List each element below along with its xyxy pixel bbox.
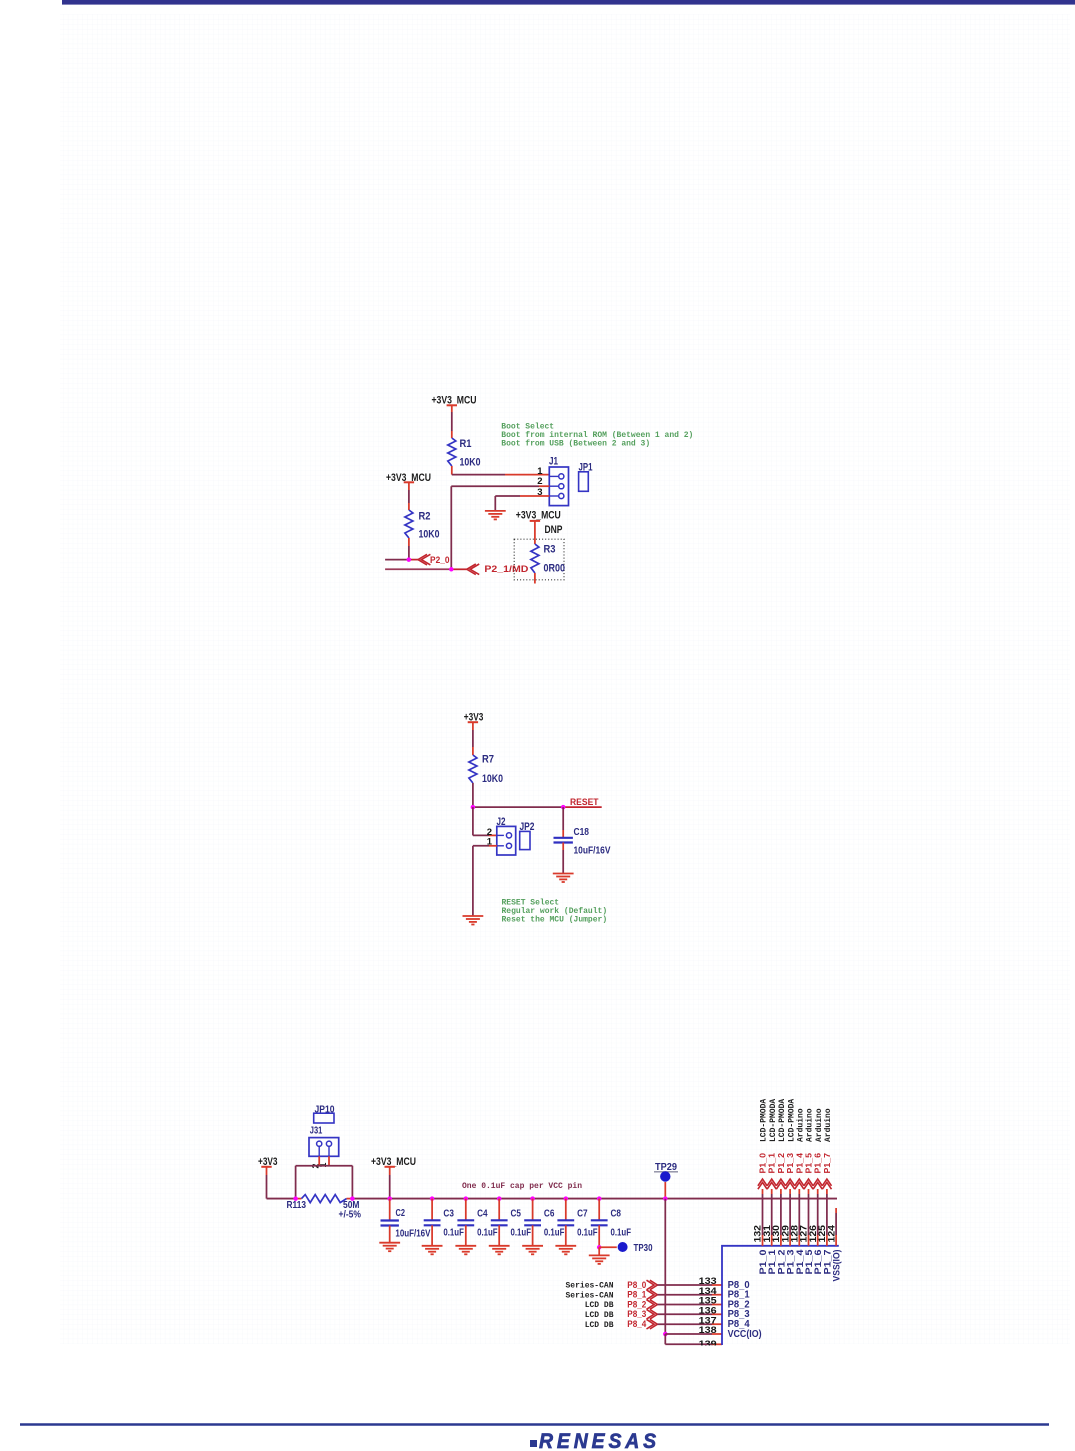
- power symbol +3V3_MCU (R2 top): [386, 472, 431, 484]
- wire RESET horizontal: [473, 806, 602, 808]
- power symbol +3V3_MCU (bus): [371, 1156, 416, 1168]
- wire +3V3_MCU down to bus: [389, 1167, 391, 1199]
- svg-text:RENESAS: RENESAS: [539, 1430, 660, 1451]
- wire P1_7 to MCU: [826, 1189, 828, 1246]
- svg-text:Arduino: Arduino: [824, 1108, 833, 1142]
- testpoint TP29: [654, 1162, 678, 1182]
- junction R113 left: [293, 1196, 298, 1201]
- svg-text:C18: C18: [574, 827, 590, 838]
- svg-text:P2_1/MD: P2_1/MD: [484, 564, 528, 574]
- ground (C7): [555, 1246, 576, 1255]
- junction P2_0: [407, 557, 412, 562]
- svg-text:LCD DB: LCD DB: [585, 1311, 614, 1320]
- svg-text:R3: R3: [544, 544, 556, 556]
- wire junction to VCC(IO) pin 138: [665, 1333, 722, 1335]
- off-page connector P1_5: [804, 1153, 814, 1189]
- wire RESET to C18: [562, 807, 564, 838]
- resistor R2: [405, 510, 440, 541]
- capacitor C4: [457, 1199, 497, 1246]
- svg-text:Arduino: Arduino: [815, 1108, 824, 1142]
- svg-text:LCD-PMODA: LCD-PMODA: [787, 1099, 796, 1142]
- wire +3V3_MCU to R3: [534, 521, 536, 544]
- note One 0.1uF cap per VCC pin: [462, 1182, 582, 1191]
- MCU pin number 127: [799, 1225, 809, 1243]
- off-page connector P8_2: [585, 1299, 658, 1310]
- svg-text:10K0: 10K0: [419, 529, 440, 541]
- svg-text:One 0.1uF cap per VCC pin: One 0.1uF cap per VCC pin: [462, 1182, 582, 1191]
- svg-text:RESET: RESET: [570, 797, 599, 807]
- wire J31 pin 2 stub: [318, 1156, 320, 1165]
- svg-text:Reset the MCU (Jumper): Reset the MCU (Jumper): [502, 916, 608, 925]
- J1 pin number 3: [537, 487, 542, 498]
- connector J31: [309, 1125, 339, 1156]
- MCU pin number 125: [817, 1225, 827, 1243]
- svg-text:0.1uF: 0.1uF: [477, 1228, 498, 1239]
- wire +3V3 down to bus: [266, 1167, 268, 1199]
- svg-text:VCC(IO): VCC(IO): [728, 1329, 762, 1340]
- wire C8 to TP30: [599, 1246, 617, 1248]
- off-page connector P8_4: [585, 1319, 658, 1330]
- svg-text:P2_0: P2_0: [430, 555, 450, 565]
- MCU U1 body edge: [722, 1246, 839, 1345]
- svg-text:Boot from USB (Between 2 and 3: Boot from USB (Between 2 and 3): [501, 440, 650, 449]
- svg-text:10K0: 10K0: [482, 773, 503, 785]
- rotated label Arduino (P1_5): [806, 1108, 815, 1142]
- MCU pin number 128: [790, 1225, 800, 1243]
- svg-text:138: 138: [699, 1325, 717, 1336]
- connector J1: [549, 456, 569, 506]
- wire P2_0 horizontal: [385, 559, 418, 561]
- MCU pin name P8_1: [728, 1290, 750, 1301]
- svg-text:Series-CAN: Series-CAN: [565, 1291, 613, 1300]
- svg-text:P8_1: P8_1: [627, 1290, 646, 1300]
- wire P8_1 to MCU: [658, 1294, 723, 1296]
- svg-text:0.1uF: 0.1uF: [511, 1228, 532, 1239]
- wire P8_2 to MCU: [658, 1304, 723, 1306]
- wire J31 pin 1 stub: [328, 1156, 330, 1165]
- junction RESET at C18: [561, 805, 566, 810]
- capacitor C8: [591, 1199, 631, 1248]
- MCU pin name P8_2: [728, 1299, 750, 1310]
- junction C6: [530, 1196, 535, 1201]
- resistor R113: [287, 1195, 362, 1221]
- MCU pin number 132: [753, 1225, 763, 1243]
- svg-text:Arduino: Arduino: [806, 1108, 815, 1142]
- ground (C5): [489, 1246, 510, 1255]
- svg-text:+/-5%: +/-5%: [339, 1209, 362, 1220]
- testpoint TP30: [618, 1242, 653, 1254]
- svg-text:R7: R7: [482, 754, 494, 766]
- off-page connector P8_1: [565, 1290, 657, 1301]
- wire R3 bottom: [534, 573, 536, 584]
- off-page connector P1_7: [822, 1153, 832, 1189]
- MCU pin name P1_4: [795, 1249, 806, 1275]
- off-page connector P1_0: [758, 1153, 768, 1189]
- capacitor C5: [491, 1199, 531, 1246]
- svg-text:Series-CAN: Series-CAN: [565, 1282, 613, 1291]
- svg-text:RESET Select: RESET Select: [502, 899, 560, 908]
- wire J1 pin 2 to P2_1/MD: [451, 486, 549, 569]
- power symbol +3V3_MCU (R1 top): [432, 395, 477, 407]
- off-page connector P1_4: [794, 1153, 804, 1189]
- svg-text:10uF/16V: 10uF/16V: [574, 846, 611, 857]
- svg-text:VSS(IO): VSS(IO): [832, 1250, 843, 1282]
- wire R7 to RESET node: [472, 783, 474, 807]
- MCU pin name VSS(IO): [832, 1250, 843, 1282]
- footer rule: [20, 1423, 1049, 1425]
- rotated label Arduino (P1_4): [797, 1108, 806, 1142]
- wire R2 to node P2_0: [408, 538, 410, 560]
- wire P1_5 to MCU: [808, 1189, 810, 1246]
- MCU pin name P1_3: [786, 1250, 797, 1275]
- junction TP29 bus: [663, 1196, 668, 1201]
- svg-text:10K0: 10K0: [460, 457, 481, 469]
- wire J31 bypass loop: [296, 1166, 353, 1199]
- wire TP29 vertical to VCC(IO): [664, 1199, 666, 1334]
- rotated label LCD-PMODA (P1_1): [769, 1099, 778, 1142]
- junction TP30: [597, 1245, 602, 1250]
- MCU pin number 136: [699, 1306, 717, 1317]
- wire VSS(IO) pin 124: [835, 1208, 837, 1246]
- wire R1 to J1 pin 1: [452, 466, 550, 475]
- wire J1 pin 3 to ground: [495, 496, 549, 511]
- svg-text:P8_0: P8_0: [627, 1280, 646, 1290]
- svg-text:C4: C4: [477, 1209, 488, 1220]
- off-page connector P1_3: [785, 1153, 795, 1189]
- off-page connector P1_2: [776, 1153, 786, 1189]
- junction C5: [497, 1196, 502, 1201]
- wire +3V3 to R7: [472, 722, 474, 755]
- MCU pin name P1_0: [758, 1250, 769, 1275]
- svg-text:P8_4: P8_4: [627, 1319, 647, 1329]
- MCU pin number 131: [762, 1225, 772, 1243]
- off-page connector P1_1: [767, 1153, 777, 1189]
- junction C3: [430, 1196, 435, 1201]
- junction C2: [387, 1196, 392, 1201]
- svg-text:R2: R2: [419, 511, 431, 523]
- jumper JP10: [314, 1104, 335, 1123]
- off-page connector P2_1/MD: [467, 564, 529, 575]
- off-page connector P8_3: [585, 1309, 658, 1320]
- ground (C4): [455, 1246, 476, 1255]
- MCU pin name P1_6: [813, 1250, 824, 1275]
- svg-text:P8_3: P8_3: [627, 1309, 646, 1319]
- junction C4: [464, 1196, 469, 1201]
- connector J2: [497, 816, 516, 855]
- svg-text:R1: R1: [460, 438, 472, 450]
- svg-text:P8_2: P8_2: [627, 1299, 646, 1309]
- ground (C18): [553, 874, 574, 883]
- ground (J2 pin 1): [463, 916, 484, 925]
- jumper JP1: [579, 462, 593, 492]
- svg-text:R113: R113: [287, 1200, 307, 1211]
- J1 pin number 2: [537, 476, 542, 487]
- junction P2_1/MD: [449, 567, 454, 572]
- off-page connector P1_6: [813, 1153, 823, 1189]
- wire P8_4 to MCU: [658, 1323, 723, 1325]
- DNP dotted box: [514, 539, 564, 580]
- capacitor C3: [424, 1199, 464, 1246]
- MCU pin name P8_4: [728, 1319, 750, 1330]
- wire P8_0 to MCU: [658, 1284, 723, 1286]
- capacitor C18: [554, 827, 611, 857]
- svg-text:J1: J1: [549, 456, 558, 468]
- off-page connector P8_0: [565, 1280, 657, 1291]
- wire C18 to ground: [562, 843, 564, 874]
- svg-text:Arduino: Arduino: [797, 1108, 806, 1142]
- resistor R1: [448, 438, 481, 469]
- svg-text:LCD-PMODA: LCD-PMODA: [769, 1099, 778, 1142]
- MCU pin number 135: [699, 1296, 718, 1307]
- rotated label Arduino (P1_6): [815, 1108, 824, 1142]
- J2 pin number 1: [487, 837, 493, 848]
- svg-text:0.1uF: 0.1uF: [443, 1228, 464, 1239]
- comment text Boot Select: [501, 423, 693, 449]
- comment text RESET Select: [502, 899, 608, 925]
- svg-text:J31: J31: [310, 1125, 323, 1136]
- svg-text:DNP: DNP: [545, 524, 563, 536]
- J2 pin number 2: [487, 827, 492, 838]
- rotated label LCD-PMODA (P1_3): [787, 1099, 796, 1142]
- svg-text:+3V3_MCU: +3V3_MCU: [516, 510, 561, 522]
- svg-text:LCD-PMODA: LCD-PMODA: [778, 1099, 787, 1142]
- MCU pin number 134: [699, 1286, 718, 1297]
- MCU pin name P8_0: [728, 1280, 750, 1291]
- J31 pin number 2: [310, 1164, 320, 1169]
- rotated label LCD-PMODA (P1_2): [778, 1099, 787, 1142]
- svg-text:0.1uF: 0.1uF: [611, 1228, 632, 1239]
- wire P1_1 to MCU: [771, 1189, 773, 1246]
- svg-text:124: 124: [826, 1225, 836, 1243]
- resistor R3: [531, 544, 565, 575]
- MCU pin name P1_1: [767, 1249, 778, 1275]
- svg-text:0.1uF: 0.1uF: [544, 1228, 565, 1239]
- J31 pin number 1: [318, 1163, 328, 1168]
- net label RESET: [570, 797, 599, 807]
- wire TP29 to bus: [664, 1182, 666, 1199]
- svg-text:0.1uF: 0.1uF: [577, 1228, 598, 1239]
- svg-text:C3: C3: [443, 1209, 454, 1220]
- Renesas logo: [530, 1430, 660, 1451]
- wire P1_4 to MCU: [798, 1189, 800, 1246]
- J1 pin number 1: [537, 466, 543, 477]
- power symbol +3V3_MCU (R3 top): [516, 510, 561, 522]
- VCC bus wire: [267, 1198, 838, 1200]
- wire junction to pin 139: [665, 1334, 722, 1344]
- header bar: [62, 0, 1075, 5]
- svg-text:C7: C7: [577, 1209, 588, 1220]
- MCU pin number 137: [699, 1315, 717, 1326]
- svg-text:C2: C2: [396, 1208, 406, 1219]
- MCU pin number 126: [808, 1225, 818, 1243]
- svg-text:C8: C8: [611, 1209, 622, 1220]
- resistor R7: [469, 754, 503, 786]
- svg-text:TP30: TP30: [634, 1243, 653, 1254]
- ground (C6): [522, 1246, 543, 1255]
- jumper JP2: [520, 821, 535, 850]
- junction C8: [597, 1196, 602, 1201]
- wire P2_1/MD horizontal: [385, 568, 467, 570]
- junction R113 right: [350, 1196, 355, 1201]
- wire J2 pin 1 to ground: [473, 846, 497, 916]
- ground (C3): [422, 1246, 443, 1255]
- wire P1_3 to MCU: [789, 1189, 791, 1246]
- MCU pin number 138: [699, 1325, 717, 1336]
- svg-text:LCD DB: LCD DB: [585, 1301, 614, 1310]
- wire P1_6 to MCU: [817, 1189, 819, 1246]
- MCU pin number 139 (clipped): [699, 1339, 717, 1350]
- svg-text:C5: C5: [511, 1209, 522, 1220]
- MCU pin number 129: [780, 1225, 790, 1243]
- wire RESET node to J2 pin 2: [473, 807, 497, 835]
- wire P8_3 to MCU: [658, 1313, 723, 1315]
- capacitor C7: [557, 1199, 597, 1246]
- wire +3V3_MCU to R1: [451, 405, 453, 438]
- svg-text:0R00: 0R00: [544, 562, 566, 574]
- MCU pin name P1_7: [822, 1250, 833, 1275]
- off-page connector P2_0: [418, 554, 450, 565]
- ground (C2): [379, 1243, 400, 1252]
- DNP note: [545, 524, 563, 536]
- junction VCC(IO): [663, 1332, 668, 1337]
- ground (J1 pin 3): [485, 511, 506, 520]
- wire P1_0 to MCU: [762, 1189, 764, 1246]
- junction RESET left: [471, 805, 476, 810]
- rotated label LCD-PMODA (P1_0): [760, 1099, 769, 1142]
- capacitor C2: [381, 1199, 431, 1243]
- MCU pin name P1_2: [776, 1250, 787, 1275]
- MCU pin number 133: [699, 1276, 717, 1287]
- MCU pin name VCC(IO): [728, 1329, 762, 1340]
- MCU pin number 124: [826, 1225, 836, 1243]
- svg-text:C6: C6: [544, 1209, 555, 1220]
- junction C7: [564, 1196, 569, 1201]
- wire P1_2 to MCU: [780, 1189, 782, 1246]
- capacitor C6: [524, 1199, 564, 1246]
- power symbol +3V3 (section 3): [258, 1156, 278, 1168]
- wire C8 to ground: [598, 1247, 600, 1255]
- power symbol +3V3 (R7 top): [464, 712, 484, 724]
- MCU pin name P1_5: [804, 1249, 815, 1275]
- MCU pin name P8_3: [728, 1309, 750, 1320]
- svg-text:2: 2: [537, 476, 542, 487]
- MCU pin number 130: [771, 1225, 781, 1243]
- svg-text:10uF/16V: 10uF/16V: [395, 1229, 430, 1240]
- svg-text:LCD-PMODA: LCD-PMODA: [760, 1099, 769, 1142]
- ground (C8): [589, 1255, 610, 1264]
- svg-text:LCD DB: LCD DB: [585, 1321, 614, 1330]
- wire +3V3_MCU to R2: [408, 482, 410, 510]
- svg-text:P1_7: P1_7: [822, 1153, 832, 1174]
- rotated label Arduino (P1_7): [824, 1108, 833, 1142]
